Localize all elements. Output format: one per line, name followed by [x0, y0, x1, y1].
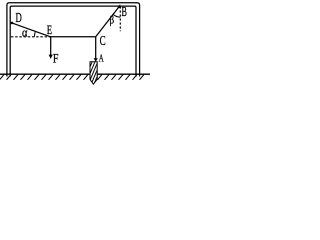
svg-text:E: E	[47, 24, 53, 38]
svg-text:A: A	[99, 52, 104, 64]
svg-text:α: α	[22, 26, 27, 40]
svg-text:β: β	[110, 15, 115, 27]
svg-text:F: F	[53, 53, 59, 66]
svg-text:D: D	[16, 11, 22, 25]
svg-text:C: C	[100, 33, 106, 48]
svg-text:B: B	[122, 5, 128, 20]
